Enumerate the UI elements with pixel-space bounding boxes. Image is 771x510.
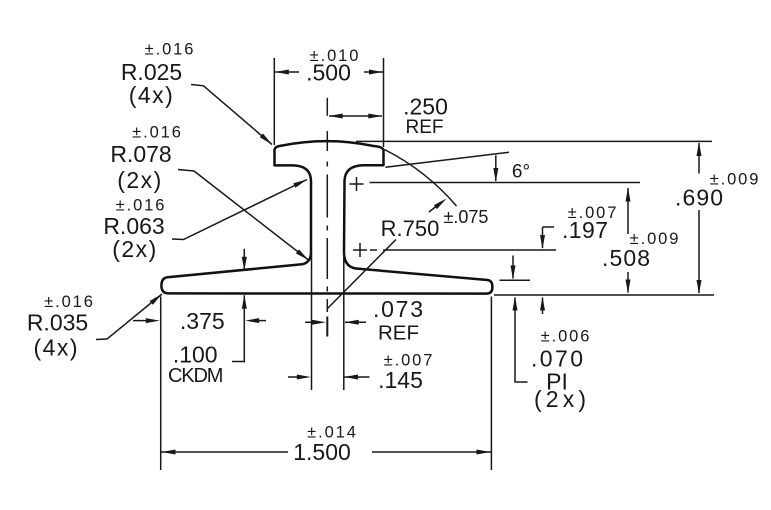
svg-text:.690: .690: [675, 185, 723, 211]
svg-text:REF: REF: [406, 117, 444, 138]
svg-text:.073: .073: [373, 296, 423, 322]
svg-text:(2x): (2x): [117, 167, 163, 193]
svg-text:.100: .100: [173, 342, 218, 368]
svg-text:R.035: R.035: [27, 310, 88, 336]
svg-text:REF: REF: [378, 322, 419, 345]
svg-text:CKDM: CKDM: [168, 365, 224, 387]
svg-text:±.016: ±.016: [116, 197, 167, 215]
svg-text:(4x): (4x): [33, 335, 79, 361]
svg-text:6°: 6°: [512, 162, 530, 183]
svg-text:.375: .375: [180, 308, 225, 334]
svg-text:(2x): (2x): [112, 236, 158, 262]
svg-text:(4x): (4x): [129, 82, 175, 108]
svg-text:R.750: R.750: [381, 216, 440, 241]
svg-text:±.016: ±.016: [44, 293, 95, 311]
svg-text:±.016: ±.016: [145, 41, 196, 59]
svg-text:±.006: ±.006: [541, 328, 592, 346]
svg-text:1.500: 1.500: [293, 439, 351, 465]
svg-text:.145: .145: [378, 367, 423, 393]
svg-text:±.075: ±.075: [444, 207, 489, 227]
svg-text:.250: .250: [403, 94, 448, 120]
svg-text:.197: .197: [562, 217, 608, 243]
svg-text:R.078: R.078: [110, 141, 171, 167]
svg-text:.508: .508: [602, 245, 650, 271]
svg-text:±.016: ±.016: [132, 124, 183, 142]
svg-text:.500: .500: [306, 60, 351, 86]
